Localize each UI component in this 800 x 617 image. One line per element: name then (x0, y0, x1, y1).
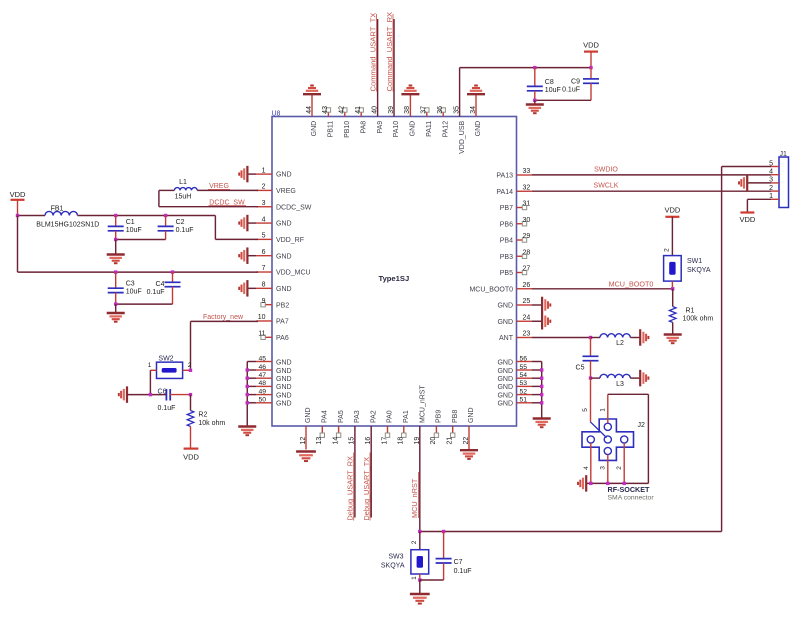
svg-text:C9: C9 (571, 78, 580, 85)
wire ground to C6 (127, 394, 166, 396)
wire PA10 Command_USART_RX (393, 19, 395, 117)
U8 pin 35 VDD_USB (453, 106, 465, 154)
svg-text:BLM15HG102SN1D: BLM15HG102SN1D (36, 221, 99, 228)
capacitor C1 (108, 216, 142, 240)
wire SWCLK PA14 to J1 pin 2 (532, 190, 772, 192)
ground below 56-51 bus (533, 419, 551, 428)
U8 pin 51 GND (497, 397, 531, 408)
svg-text:5: 5 (262, 233, 266, 240)
svg-text:8: 8 (262, 282, 266, 289)
U8 pin 36 PA12 (437, 106, 449, 138)
svg-text:GND: GND (276, 172, 292, 179)
svg-text:13: 13 (316, 437, 323, 445)
U8 pin 29 PB4 (500, 233, 531, 244)
wire SWDIO PA13 to J1 pin 4 (532, 174, 772, 176)
switch SW3 (411, 550, 429, 574)
U8 pin 50 GND (256, 397, 291, 408)
ground left of C6 (119, 386, 127, 403)
SW1 pin 1 stub (671, 281, 673, 289)
svg-text:30: 30 (523, 217, 531, 224)
J2 center contact (604, 436, 611, 443)
wire J2 pin 4 down (590, 443, 592, 483)
svg-text:L2: L2 (616, 340, 624, 347)
svg-text:VDD_RF: VDD_RF (276, 237, 304, 244)
svg-text:47: 47 (258, 372, 266, 379)
svg-text:3: 3 (262, 200, 266, 207)
U8 pin 48 GND (256, 380, 291, 391)
U8 pin 30 PB6 (500, 217, 531, 228)
svg-text:SWCLK: SWCLK (594, 183, 619, 190)
U8 pin 18 PA1 (398, 410, 410, 444)
U8 pin 42 PB10 (339, 106, 351, 138)
svg-text:49: 49 (258, 388, 266, 395)
svg-text:PB7: PB7 (500, 205, 513, 212)
junction at C2 (164, 214, 167, 217)
ground symbol right of U8 pin 24 (532, 320, 542, 322)
svg-text:9: 9 (262, 298, 266, 305)
svg-text:GND: GND (276, 221, 292, 228)
junction at C1 (114, 214, 117, 217)
svg-text:46: 46 (258, 364, 266, 371)
U8 pin 8 GND (256, 282, 291, 293)
junction C6 right on vertical (189, 393, 192, 396)
U8 pin 28 PB3 (500, 249, 531, 260)
net label DCDC_SW (209, 199, 247, 206)
U8 pin 32 PA14 (496, 184, 531, 195)
junction SW2 pin1 to C6 wire (149, 393, 152, 396)
J2 top contact (pin 1) (604, 423, 611, 430)
junction SW2 pin2 on vertical (189, 369, 192, 372)
svg-text:VDD: VDD (664, 206, 680, 215)
net label Command_USART_RX (385, 12, 394, 92)
U8 pin 23 ANT (499, 331, 532, 342)
svg-text:PA13: PA13 (496, 173, 513, 180)
ground symbol above U8 top pin (401, 86, 419, 95)
junction at C8 bottom (533, 99, 536, 102)
svg-text:0.1uF: 0.1uF (562, 86, 580, 93)
svg-text:52: 52 (520, 388, 528, 395)
junction at C8 top (533, 66, 536, 69)
svg-text:Debug_USART_RX: Debug_USART_RX (346, 456, 355, 520)
inductor L2 (591, 337, 601, 339)
connector J1 body (779, 157, 789, 208)
svg-text:C3: C3 (126, 281, 135, 288)
svg-text:36: 36 (437, 106, 444, 114)
svg-text:GND: GND (497, 359, 513, 366)
U8 pin 52 GND (497, 388, 531, 399)
junction at C1 bottom (114, 238, 117, 241)
ground symbol left of U8 pin 8 (248, 287, 257, 289)
svg-text:PA14: PA14 (496, 189, 513, 196)
svg-text:GND: GND (497, 401, 513, 408)
inductor L3 (591, 377, 601, 379)
svg-text:PB6: PB6 (500, 221, 513, 228)
svg-text:18: 18 (398, 437, 405, 445)
U8 pin 12 GND (300, 407, 312, 449)
net label MCU_nRST (410, 472, 419, 518)
svg-text:29: 29 (523, 233, 531, 240)
svg-text:GND: GND (276, 392, 292, 399)
svg-text:54: 54 (520, 372, 528, 379)
U8 pin 27 PB5 (500, 266, 531, 277)
J2 bottom contact (pin 3) (604, 447, 611, 454)
svg-text:GND: GND (497, 368, 513, 375)
svg-text:GND: GND (276, 286, 292, 293)
U8 pin 38 GND (404, 95, 416, 136)
capacitor C2 (158, 216, 194, 240)
svg-text:C1: C1 (126, 219, 135, 226)
U8 pin 44 GND (306, 95, 318, 136)
capacitor C5 (583, 338, 599, 379)
junction J2 pin4 bottom (589, 482, 592, 485)
svg-text:1: 1 (411, 576, 418, 580)
capacitor C7 (436, 532, 472, 581)
J2 left contact (pin 4) (587, 436, 594, 443)
svg-text:32: 32 (523, 184, 531, 191)
svg-text:GND: GND (276, 368, 292, 375)
svg-text:1: 1 (262, 167, 266, 174)
svg-text:4: 4 (262, 216, 266, 223)
svg-text:PB11: PB11 (328, 121, 335, 138)
ground below R1 (672, 322, 674, 334)
svg-text:43: 43 (322, 106, 329, 114)
svg-text:22: 22 (463, 437, 470, 445)
svg-text:26: 26 (523, 282, 531, 289)
wire J2 pin 2 down (623, 443, 625, 483)
svg-text:PB10: PB10 (344, 121, 351, 138)
J2 switch lever (590, 422, 606, 438)
U8 pin 49 GND (256, 388, 291, 399)
ground symbol above U8 top pin (467, 86, 485, 95)
svg-text:27: 27 (523, 266, 531, 273)
SW2 pin 1 wire down to C6 net (150, 370, 156, 394)
wire C7 bottom to SW3 bottom (420, 579, 444, 581)
ground below SW3 (419, 580, 421, 594)
svg-text:GND: GND (497, 376, 513, 383)
svg-text:SMA connector: SMA connector (608, 495, 655, 502)
svg-text:10uF: 10uF (126, 227, 142, 234)
U8 pin 14 PA5 (332, 410, 344, 444)
wire C5/L3 to J2 pin 5 (590, 378, 592, 422)
svg-text:17: 17 (381, 437, 388, 445)
svg-text:RF-SOCKET: RF-SOCKET (608, 485, 651, 494)
svg-text:Debug_USART_TX: Debug_USART_TX (362, 457, 371, 521)
U8 pin 21 PB8 (447, 410, 459, 445)
junction nRST rail at pin19 (418, 530, 421, 533)
svg-text:PB4: PB4 (500, 238, 513, 245)
svg-text:VDD: VDD (10, 190, 26, 199)
svg-text:11: 11 (258, 331, 265, 338)
svg-text:41: 41 (355, 106, 362, 114)
svg-text:100k ohm: 100k ohm (683, 316, 714, 323)
svg-text:GND: GND (475, 121, 482, 137)
svg-text:C7: C7 (454, 559, 463, 566)
svg-text:J1: J1 (780, 151, 788, 158)
wire MCU_nRST pin 19 down (419, 426, 421, 532)
svg-text:3: 3 (599, 466, 606, 470)
svg-text:MCU_BOOT0: MCU_BOOT0 (609, 280, 654, 289)
svg-text:4: 4 (769, 169, 773, 176)
junction at VDD stub (16, 214, 19, 217)
svg-text:GND: GND (305, 407, 312, 423)
U8 pin 54 GND (497, 372, 531, 383)
svg-text:42: 42 (339, 106, 346, 114)
svg-text:C6: C6 (158, 388, 167, 395)
svg-text:5: 5 (582, 408, 589, 412)
J1 pin 4 (769, 169, 779, 176)
wire J1 pin 1 to VDD (747, 199, 771, 212)
svg-text:R1: R1 (686, 308, 695, 315)
svg-text:PA4: PA4 (322, 410, 329, 423)
wire MCU_BOOT0 pin 26 to SW1/R1 (532, 288, 673, 290)
wire J2 pin 3 down (607, 455, 609, 484)
svg-text:0.1uF: 0.1uF (454, 568, 472, 575)
ground symbol left of U8 pin 4 (248, 222, 257, 224)
svg-text:VREG: VREG (276, 188, 296, 195)
svg-text:20: 20 (430, 437, 437, 445)
U8 pin 1 GND (256, 167, 291, 178)
capacitor C3 (108, 272, 142, 304)
svg-text:GND: GND (410, 121, 417, 137)
svg-text:Type1SJ: Type1SJ (379, 274, 410, 283)
svg-text:PB2: PB2 (276, 302, 289, 309)
wire C1-C2 bottoms (116, 239, 166, 241)
U8 pin 33 PA13 (496, 168, 531, 179)
svg-text:PA3: PA3 (354, 410, 361, 423)
svg-text:VDD_USB: VDD_USB (459, 120, 466, 153)
svg-text:C2: C2 (176, 219, 185, 226)
svg-text:7: 7 (262, 265, 266, 272)
inductor L1 (174, 188, 197, 191)
ground below C1 (115, 240, 117, 255)
junction SW3 bottom / C7 bottom (418, 578, 421, 581)
svg-text:24: 24 (523, 314, 531, 321)
U8 pin 55 GND (497, 364, 531, 375)
ground symbol left of U8 pin 1 (248, 173, 257, 175)
U8 pin 5 VDD_RF (256, 233, 304, 244)
wire PA2 Debug_USART_TX (370, 426, 372, 518)
wire PA9 Command_USART_TX (377, 19, 379, 117)
U8 pin 7 VDD_MCU (256, 265, 310, 276)
svg-text:Command_USART_TX: Command_USART_TX (368, 13, 377, 92)
U8 pin 6 GND (256, 249, 291, 260)
svg-text:Command_USART_RX: Command_USART_RX (385, 12, 394, 92)
ground symbol right of U8 pin 25 (532, 304, 542, 306)
svg-text:12: 12 (300, 437, 307, 445)
svg-text:48: 48 (258, 380, 266, 387)
svg-text:DCDC_SW: DCDC_SW (276, 204, 312, 211)
capacitor C9 (562, 68, 599, 101)
junction C7 top on nRST rail (442, 530, 445, 533)
svg-text:6: 6 (262, 249, 266, 256)
capacitor C8 (527, 68, 561, 101)
U8 pin 2 VREG (256, 184, 296, 195)
junction at C3 (114, 270, 117, 273)
svg-text:VDD: VDD (183, 452, 199, 461)
switch SW2 (157, 362, 183, 378)
U8 pin 47 GND (256, 372, 291, 383)
svg-text:GND: GND (497, 384, 513, 391)
ferrite bead FB1 (45, 211, 78, 215)
junction dots on 56-51 bus (540, 368, 543, 404)
svg-text:FB1: FB1 (51, 205, 64, 212)
wire VDD to FB1 and down (18, 200, 46, 216)
svg-text:14: 14 (332, 437, 339, 445)
U8 pin 10 PA7 (256, 314, 289, 325)
svg-text:SW3: SW3 (388, 553, 403, 560)
SW3 pin 1 stub (419, 574, 421, 580)
svg-text:PA10: PA10 (393, 121, 400, 138)
svg-text:GND: GND (497, 392, 513, 399)
svg-text:15uH: 15uH (175, 194, 192, 201)
svg-text:MCU_BOOT0: MCU_BOOT0 (469, 286, 513, 293)
svg-text:GND: GND (311, 121, 318, 137)
U8 pin 16 PA2 (365, 410, 377, 444)
wire L2 to ground (630, 337, 640, 339)
SW2 pin 2 stub (183, 369, 191, 371)
svg-text:C5: C5 (576, 364, 585, 371)
svg-text:C8: C8 (545, 79, 554, 86)
svg-text:2: 2 (769, 185, 773, 192)
svg-text:PA1: PA1 (403, 410, 410, 423)
svg-text:J2: J2 (638, 422, 646, 429)
svg-text:PA7: PA7 (276, 319, 289, 326)
wire R2 to VDD (190, 426, 192, 448)
wire VREG pin 2 to L1 (197, 189, 258, 191)
svg-text:38: 38 (404, 106, 411, 114)
U8 pin 15 PA3 (349, 410, 361, 444)
svg-text:51: 51 (520, 397, 528, 404)
U8 pin 22 GND (463, 407, 475, 449)
U8 pin 24 GND (497, 314, 531, 325)
svg-text:L3: L3 (616, 381, 624, 388)
svg-text:31: 31 (523, 201, 531, 208)
junction J2 pin2 bottom (623, 482, 626, 485)
wire L3 to ground (630, 377, 640, 379)
svg-text:25: 25 (523, 298, 531, 305)
svg-text:VDD_MCU: VDD_MCU (276, 270, 311, 277)
svg-text:GND: GND (276, 253, 292, 260)
U8 pin 19 MCU_nRST (414, 385, 426, 445)
ground below C8 (534, 100, 536, 104)
VDD power symbol above SW1 (664, 206, 680, 217)
IC U8 Type1SJ body (272, 117, 517, 427)
svg-text:SKQYA: SKQYA (381, 562, 405, 569)
svg-text:GND: GND (497, 303, 513, 310)
U8 pin 37 PA11 (421, 106, 433, 137)
junction at L2/C5 (589, 336, 592, 339)
wire PA3 Debug_USART_RX (354, 426, 356, 518)
junction dots on 45-50 bus (246, 368, 249, 404)
svg-text:2: 2 (664, 248, 671, 252)
svg-text:PB3: PB3 (500, 254, 513, 261)
svg-text:SKQYA: SKQYA (687, 267, 711, 274)
wire VDD_USB pin 35 up and right (460, 68, 591, 117)
svg-text:GND: GND (276, 376, 292, 383)
U8 pin 41 PA8 (355, 106, 367, 134)
ground symbol above U8 top pin (303, 86, 321, 95)
U8 pin 25 GND (497, 298, 531, 309)
VDD power symbol below R2 (183, 449, 199, 462)
wire down to SW3 (419, 532, 421, 550)
svg-text:GND: GND (468, 407, 475, 423)
U8 pin 40 PA9 (371, 106, 383, 134)
resistor R2 (190, 395, 192, 411)
svg-text:55: 55 (520, 364, 528, 371)
svg-text:0.1uF: 0.1uF (158, 405, 176, 412)
svg-text:0.1uF: 0.1uF (147, 289, 165, 296)
svg-text:PA6: PA6 (276, 335, 289, 342)
U8 pin 43 PB11 (322, 106, 334, 138)
wire FB1 to VDD_RF pin (78, 216, 259, 240)
connector J2 RF-SOCKET body (582, 419, 634, 460)
svg-text:28: 28 (523, 249, 531, 256)
svg-text:2: 2 (188, 362, 192, 369)
svg-text:10uF: 10uF (545, 87, 561, 94)
ground below C3 (115, 304, 117, 313)
VDD power symbol below J1 (inverted) (739, 213, 755, 224)
svg-text:10uF: 10uF (126, 289, 142, 296)
svg-text:ANT: ANT (499, 335, 514, 342)
wire VDD to SW1 (671, 217, 673, 256)
ground at J1 pin 3 (747, 182, 771, 184)
J1 pin 5 (769, 160, 779, 167)
svg-text:PA0: PA0 (387, 410, 394, 423)
junction at C3 bottom (114, 302, 117, 305)
ground right of L2 (640, 329, 648, 346)
U8 pin 17 PA0 (381, 410, 393, 444)
capacitor C4 (147, 272, 181, 304)
VDD power symbol above C9 (583, 40, 599, 51)
net label Debug_USART_RX (346, 453, 355, 521)
svg-text:PA12: PA12 (442, 121, 449, 138)
net label VREG (208, 183, 230, 190)
svg-text:PB9: PB9 (436, 410, 443, 423)
svg-text:Factory_new: Factory_new (203, 314, 244, 321)
svg-text:GND: GND (497, 319, 513, 326)
svg-text:2: 2 (411, 540, 418, 544)
svg-text:PA2: PA2 (370, 410, 377, 423)
junction at C9 top (589, 66, 592, 69)
net label Debug_USART_TX (362, 453, 371, 521)
svg-text:PB8: PB8 (452, 410, 459, 423)
svg-text:1: 1 (148, 362, 152, 369)
svg-text:56: 56 (520, 355, 528, 362)
svg-text:L1: L1 (179, 179, 187, 186)
svg-text:GND: GND (276, 384, 292, 391)
U8 pin 53 GND (497, 380, 531, 391)
U8 pin 26 MCU_BOOT0 (469, 282, 531, 293)
capacitor C6 (horizontal) (166, 389, 190, 401)
ground below 45-50 bus (238, 427, 256, 436)
wire C3-C4 bottoms (116, 303, 173, 305)
svg-text:45: 45 (258, 355, 266, 362)
J1 pin 3 (769, 177, 779, 184)
J2 right contact (pin 2) (621, 436, 628, 443)
svg-text:VDD: VDD (583, 40, 599, 49)
U8 pin 39 PA10 (388, 106, 400, 138)
svg-text:PA11: PA11 (426, 121, 433, 137)
svg-text:37: 37 (421, 106, 428, 114)
junction at C4 (171, 270, 174, 273)
wire ANT pin 23 to matching network (532, 337, 591, 339)
U8 pin 13 PA4 (316, 410, 328, 444)
wire L1 to DCDC_SW pin 3 (159, 190, 258, 206)
svg-text:PA8: PA8 (360, 121, 367, 134)
svg-text:GND: GND (276, 401, 292, 408)
VDD power symbol top-left (10, 190, 26, 200)
ground right of L3 (640, 370, 648, 387)
